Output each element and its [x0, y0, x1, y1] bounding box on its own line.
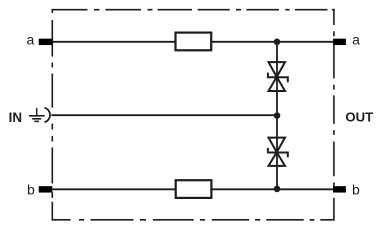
earth symbol at IN [29, 108, 45, 122]
svg-text:IN: IN [9, 110, 22, 125]
junction node bottom [274, 186, 281, 193]
border right (dash-dot) [333, 9, 335, 221]
wire bottom b-b [52, 188, 334, 190]
junction node top [274, 39, 281, 46]
terminal b left [39, 186, 53, 192]
border top (dash-dot) [52, 9, 334, 11]
svg-text:a: a [352, 32, 360, 48]
TVS diode top (bidirectional suppressor) [268, 62, 288, 91]
TVS diode bottom (bidirectional suppressor) [268, 138, 288, 166]
terminal a left [39, 39, 53, 45]
indirect earthing arc [44, 108, 50, 123]
wire middle IN [51, 114, 277, 116]
resistor bottom [176, 180, 212, 198]
terminal b right [333, 186, 346, 192]
wire top a-a [52, 41, 334, 43]
svg-text:b: b [352, 182, 360, 198]
wire diode column vertical [276, 42, 278, 189]
terminal a right [333, 39, 346, 45]
svg-text:b: b [27, 182, 35, 198]
junction node middle [274, 112, 281, 119]
border bottom (dash-dot) [52, 219, 334, 221]
border left (dash-dot) [51, 9, 53, 221]
resistor top [176, 33, 212, 51]
svg-text:OUT: OUT [345, 110, 373, 125]
svg-text:a: a [27, 32, 35, 48]
